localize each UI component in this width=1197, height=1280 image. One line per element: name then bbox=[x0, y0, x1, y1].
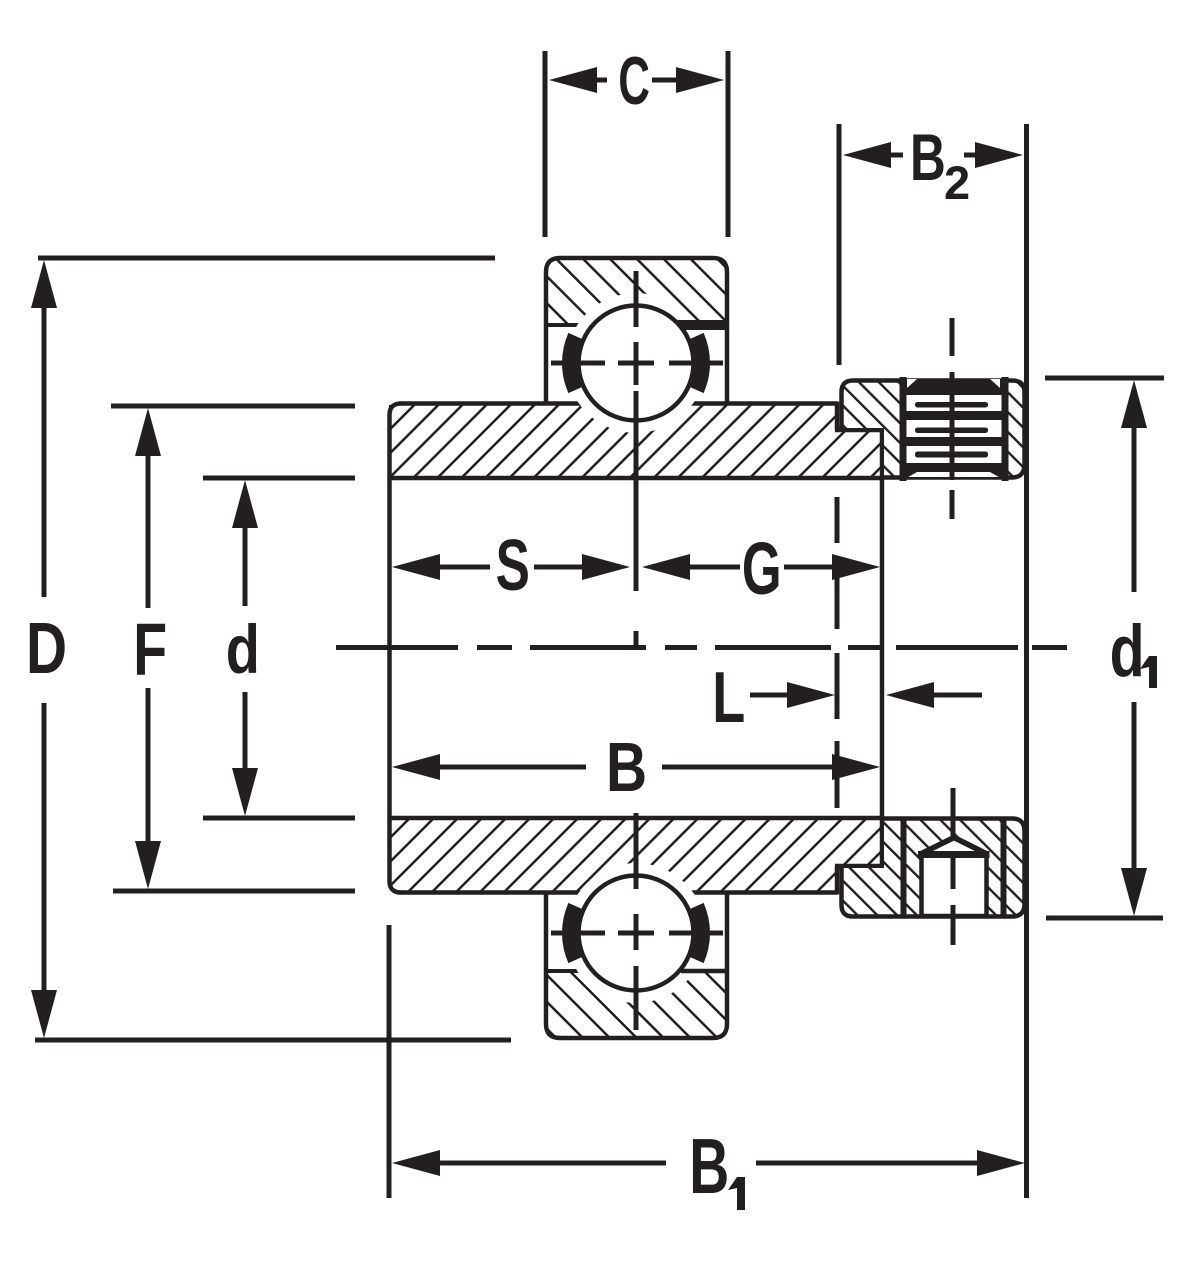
B1 dimension left extension line bbox=[387, 925, 392, 1198]
locking collar bottom section outline bbox=[842, 819, 1025, 917]
top ball left race contact crescent bbox=[570, 336, 576, 390]
d dimension arrow line bbox=[243, 526, 248, 770]
set screw top thin thread stripes bbox=[915, 402, 988, 408]
L dimension arrows bbox=[750, 693, 792, 698]
d1 dimension arrow line bbox=[1132, 426, 1137, 870]
vertical center line through balls bbox=[634, 271, 639, 1030]
inner ring sleeve right end face line bbox=[880, 428, 885, 868]
inner ring sleeve bottom outer surface line bbox=[399, 890, 837, 895]
set screw top thread bar 4 bbox=[903, 463, 1004, 472]
set screw top thread bar 1 bbox=[903, 379, 1004, 395]
set screw bottom cone point bbox=[920, 838, 989, 855]
top ball bbox=[579, 306, 694, 421]
main horizontal center line bbox=[336, 645, 1067, 650]
set screw top thread bar 3 bbox=[903, 437, 1004, 446]
inner ring sleeve bore top line bbox=[390, 476, 883, 481]
locking collar bottom section hatching bbox=[841, 819, 1024, 916]
inner ring sleeve bottom band hatching bbox=[389, 820, 882, 891]
inner ring sleeve top band hatching bbox=[389, 405, 882, 476]
G dimension arrows bbox=[642, 554, 690, 580]
svg-text:d: d bbox=[226, 611, 260, 688]
set screw bottom body bbox=[922, 854, 987, 916]
top ball cross hair horizontal bbox=[551, 361, 723, 366]
set screw top threaded bore white backing bbox=[903, 380, 1004, 477]
D dimension arrow line bbox=[42, 306, 47, 992]
inner ring sleeve bore bottom line bbox=[390, 816, 883, 821]
set screw bottom bore right edge bbox=[1001, 818, 1007, 917]
raceway groove white gap around top ball bbox=[566, 293, 706, 433]
set screw bottom cone base line bbox=[918, 851, 990, 858]
set screw top bottom chamfer marks bbox=[903, 472, 917, 480]
inner ring sleeve top step edge bbox=[835, 402, 882, 431]
outer ring top left raceway shoulder line bbox=[546, 323, 604, 327]
B2 dimension extension lines bbox=[837, 124, 842, 365]
set screw top thread bar 2 bbox=[903, 411, 1004, 420]
bottom ball cross hair horizontal bbox=[551, 931, 723, 936]
svg-text:G: G bbox=[742, 528, 782, 611]
svg-text:D: D bbox=[26, 608, 67, 689]
outer ring top section outline bbox=[546, 258, 727, 403]
locking collar top section hatching bbox=[841, 380, 1024, 477]
svg-text:C: C bbox=[618, 43, 650, 119]
d1 dimension extension lines bbox=[1045, 376, 1164, 381]
S dimension arrows bbox=[392, 554, 440, 580]
outer ring bottom left raceway shoulder line bbox=[546, 969, 604, 973]
F dimension extension lines bbox=[111, 404, 355, 409]
bottom ball left race contact crescent bbox=[570, 906, 576, 960]
outer ring top section hatching bbox=[548, 260, 725, 327]
set screw top bore left edge bbox=[900, 377, 907, 481]
svg-text:B: B bbox=[689, 1124, 729, 1210]
inner ring sleeve bottom step edge bbox=[835, 866, 882, 895]
B2 dimension arrows bbox=[843, 142, 891, 168]
set screw vertical center line bbox=[952, 318, 953, 945]
inner ring sleeve top outer surface line bbox=[399, 401, 837, 406]
set screw top bevel notches bbox=[907, 379, 917, 388]
outer ring top right filling-slot bar bbox=[678, 320, 727, 330]
locking collar top section outline bbox=[842, 381, 1025, 478]
svg-text:B: B bbox=[910, 121, 946, 195]
outer ring bottom section hatching bbox=[548, 969, 725, 1036]
svg-text:2: 2 bbox=[944, 156, 970, 209]
svg-text:d: d bbox=[1110, 609, 1145, 692]
d dimension extension lines bbox=[203, 476, 355, 481]
svg-text:L: L bbox=[712, 658, 745, 738]
C dimension arrows bbox=[549, 67, 597, 93]
C dimension extension lines bbox=[545, 51, 728, 237]
top ball right race contact crescent bbox=[697, 336, 703, 390]
svg-text:S: S bbox=[496, 526, 530, 607]
set screw bottom bore left edge bbox=[901, 818, 907, 917]
set screw top bore right edge bbox=[1002, 377, 1009, 481]
D dimension extension lines bbox=[38, 256, 495, 261]
raceway groove white gap around bottom ball bbox=[566, 863, 706, 1003]
bottom ball bbox=[579, 876, 694, 991]
inner ring sleeve outline left edge and corners bbox=[390, 404, 402, 893]
B1 dimension arrows bbox=[392, 1150, 440, 1176]
outer ring bottom section outline bbox=[546, 893, 727, 1038]
B dimension arrows bbox=[392, 754, 440, 780]
bottom ball right race contact crescent bbox=[697, 906, 703, 960]
svg-text:B: B bbox=[606, 727, 647, 806]
svg-text:F: F bbox=[133, 608, 167, 691]
outer ring bottom right raceway shoulder line bbox=[681, 969, 727, 974]
B-line vertical dashed extension at step bbox=[835, 497, 840, 808]
F dimension arrow line bbox=[146, 454, 151, 843]
